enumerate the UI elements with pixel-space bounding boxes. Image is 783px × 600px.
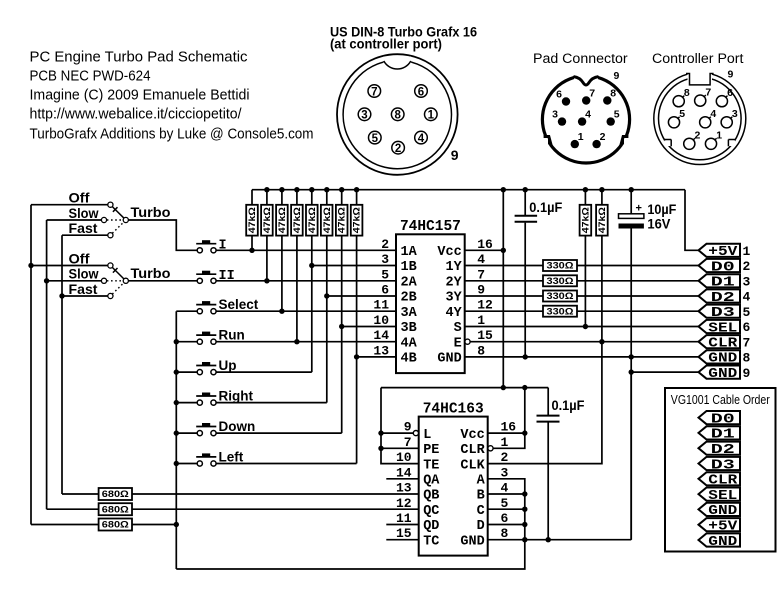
- connector flag D0 pin 2: [699, 259, 751, 275]
- wire SW2 Off feed: [31, 265, 108, 267]
- svg-text:4Y: 4Y: [445, 306, 462, 321]
- svg-text:3B: 3B: [401, 321, 417, 336]
- capacitor C2 10uF 16V electrolytic: [619, 190, 677, 540]
- svg-text:0.1µF: 0.1µF: [552, 398, 585, 413]
- svg-text:47kΩ: 47kΩ: [247, 207, 257, 233]
- svg-text:D0: D0: [711, 411, 735, 427]
- svg-text:0.1µF: 0.1µF: [529, 200, 562, 215]
- resistor R11 330 ohm: [543, 275, 577, 286]
- svg-text:2: 2: [600, 131, 606, 143]
- junction column8 to 4B: [354, 354, 359, 359]
- svg-text:S: S: [454, 321, 462, 336]
- svg-text:4: 4: [743, 290, 751, 305]
- Pad Connector pin 4: [578, 109, 591, 126]
- wire 47k A to S row: [584, 236, 586, 327]
- junction Slow bus / SW2: [44, 278, 49, 283]
- pushbutton Down: [196, 423, 216, 436]
- junction L pin: [378, 430, 383, 435]
- resistor 47k #7: [336, 190, 348, 236]
- wire U1 Vcc pin16: [465, 249, 504, 251]
- svg-text:9: 9: [743, 366, 751, 381]
- svg-text:PCB NEC PWD-624: PCB NEC PWD-624: [30, 69, 151, 85]
- wire SW1 Fast feed: [62, 234, 108, 236]
- svg-text:1Y: 1Y: [445, 260, 462, 275]
- svg-text:1: 1: [743, 244, 751, 259]
- svg-text:680Ω: 680Ω: [102, 505, 129, 515]
- svg-text:2B: 2B: [401, 291, 417, 306]
- wire SW1 output to button I: [128, 220, 197, 250]
- VG1001 flag GND: [699, 503, 741, 519]
- DIN-8 pin 8: [391, 108, 404, 122]
- junction on +5V rail: [294, 187, 299, 192]
- pushbutton I: [196, 240, 216, 253]
- junction PE pin: [378, 446, 383, 451]
- svg-text:47kΩ: 47kΩ: [292, 207, 302, 233]
- VG1001 flag D2: [699, 442, 741, 458]
- wire R16 680 row: [31, 524, 176, 526]
- svg-text:3Y: 3Y: [445, 291, 462, 306]
- wire GND flag pin9 row: [631, 371, 698, 373]
- wire Up to column5: [216, 371, 312, 373]
- Pad Connector pin 1: [571, 131, 584, 148]
- resistor R13 330 ohm: [543, 306, 577, 317]
- svg-text:47kΩ: 47kΩ: [597, 207, 607, 233]
- junction on +5V rail: [629, 187, 634, 192]
- wire R15 680 row: [47, 508, 419, 510]
- wire Run to 4A: [216, 341, 396, 343]
- svg-text:2Y: 2Y: [445, 276, 462, 291]
- svg-text:10µF: 10µF: [647, 202, 676, 217]
- VG1001 flag GND: [699, 533, 741, 549]
- svg-text:8: 8: [743, 351, 751, 366]
- svg-text:Vcc: Vcc: [460, 428, 484, 443]
- junction on +5V rail: [264, 187, 269, 192]
- wire U2 C: [488, 508, 525, 510]
- connector flag GND pin 9: [699, 366, 751, 382]
- svg-text:Slow: Slow: [69, 206, 99, 221]
- wire SW2 Slow feed: [47, 280, 102, 282]
- wire column 8: [356, 236, 358, 464]
- svg-text:2: 2: [501, 450, 509, 465]
- resistor 47k #4: [291, 190, 303, 236]
- pushbutton Left: [196, 453, 216, 466]
- svg-text:PC Engine Turbo Pad Schematic: PC Engine Turbo Pad Schematic: [30, 50, 248, 66]
- wire rail2 to U2 control pins: [381, 388, 419, 464]
- DIN-8 pin 6: [415, 85, 428, 99]
- svg-text:7: 7: [743, 335, 751, 350]
- svg-text:GND: GND: [708, 534, 737, 550]
- Controller Port pin 2: [684, 130, 701, 150]
- svg-text:CLR: CLR: [708, 473, 738, 489]
- VG1001 flag SEL: [699, 488, 741, 504]
- junction column7 to 3B: [339, 324, 344, 329]
- svg-text:16: 16: [501, 420, 517, 435]
- svg-text:47kΩ: 47kΩ: [337, 207, 347, 233]
- wire U2 L pin9: [381, 432, 413, 434]
- svg-text:74HC163: 74HC163: [423, 401, 484, 417]
- wire Left left feed: [176, 463, 197, 465]
- svg-text:TC: TC: [423, 534, 439, 549]
- svg-text:(at controller port): (at controller port): [330, 37, 442, 53]
- svg-text:47kΩ: 47kΩ: [322, 207, 332, 233]
- svg-text:Left: Left: [219, 450, 244, 465]
- junction Fast bus / SW2: [59, 293, 64, 298]
- VG1001 flag CLR: [699, 472, 741, 488]
- wire U2 QD stub: [386, 524, 418, 526]
- svg-text:4: 4: [585, 109, 591, 121]
- junction common vertical: [174, 369, 179, 374]
- svg-text:6: 6: [556, 89, 562, 101]
- svg-text:3: 3: [552, 109, 558, 121]
- wire SW2 Fast feed: [62, 295, 108, 297]
- wire Select left feed: [176, 310, 197, 312]
- connector J2 Pad Connector body: [540, 73, 632, 163]
- VG1001 flag D3: [699, 457, 741, 473]
- svg-text:D2: D2: [711, 442, 735, 458]
- svg-text:Imagine (C) 2009 Emanuele Bett: Imagine (C) 2009 Emanuele Bettidi: [30, 88, 250, 104]
- connector flag D3 pin 5: [699, 305, 751, 321]
- pushbutton Run: [196, 332, 216, 345]
- DIN-8 pin 2: [392, 141, 405, 155]
- svg-text:330Ω: 330Ω: [547, 306, 574, 316]
- wire U1 E to CLR flag: [470, 341, 698, 343]
- wire U2 PE pin7: [381, 447, 419, 449]
- connector flag SEL pin 6: [699, 320, 751, 336]
- svg-text:47kΩ: 47kΩ: [262, 207, 272, 233]
- svg-text:E: E: [454, 336, 462, 351]
- junction on +5V rail: [599, 187, 604, 192]
- svg-text:C: C: [477, 504, 485, 519]
- svg-text:Off: Off: [69, 191, 91, 206]
- svg-text:7: 7: [371, 86, 377, 98]
- svg-text:47kΩ: 47kΩ: [580, 207, 590, 233]
- Controller Port pin 1: [705, 130, 722, 150]
- wire SW1 Slow feed: [47, 219, 102, 221]
- Controller Port pin 8: [673, 87, 690, 107]
- wire U2 B: [488, 493, 525, 495]
- IC U2 74HC163: [396, 401, 516, 555]
- svg-text:2A: 2A: [401, 276, 418, 291]
- wire U1 GND to GND flag: [465, 356, 699, 358]
- wire SW2 output to button II: [128, 280, 197, 282]
- svg-text:Vcc: Vcc: [437, 245, 461, 260]
- Pad Connector pin 3: [552, 109, 566, 126]
- DIN-8 pin 3: [358, 108, 371, 122]
- svg-text:13: 13: [373, 343, 389, 358]
- svg-text:3: 3: [743, 275, 751, 290]
- svg-text:A: A: [477, 474, 486, 489]
- svg-text:GND: GND: [708, 351, 737, 367]
- svg-text:3: 3: [361, 110, 367, 122]
- svg-text:QB: QB: [423, 489, 439, 504]
- wire U2 D: [488, 524, 525, 526]
- resistor R15 680 ohm: [99, 503, 132, 515]
- resistor R_SEL 47k: [580, 190, 592, 236]
- wire U2 GND row: [488, 539, 632, 541]
- svg-text:B: B: [477, 489, 485, 504]
- junction on +5V rail: [523, 187, 528, 192]
- svg-text:Select: Select: [219, 297, 259, 312]
- svg-text:D3: D3: [711, 305, 735, 321]
- resistor R12 330 ohm: [543, 291, 577, 302]
- junction column5 to 1B: [309, 263, 314, 268]
- wire U2 Vcc pin16: [488, 432, 525, 434]
- wire button I to 1A: [216, 249, 396, 251]
- wire column 5: [311, 236, 313, 373]
- switch SW1 turbo select: [101, 202, 128, 238]
- svg-text:GND: GND: [708, 503, 737, 519]
- wire column 7: [341, 236, 343, 434]
- svg-text:8: 8: [684, 87, 690, 99]
- VG1001 flag D0: [699, 411, 741, 427]
- wire column 6: [326, 236, 328, 403]
- resistor 47k #1: [246, 190, 258, 236]
- svg-text:D0: D0: [711, 259, 735, 275]
- svg-text:330Ω: 330Ω: [547, 276, 574, 286]
- resistor R10 330 ohm: [543, 260, 577, 271]
- IC U1 pin E inverter bubble: [465, 339, 470, 344]
- junction common vertical: [174, 430, 179, 435]
- svg-text:5: 5: [381, 267, 389, 282]
- pushbutton Up: [196, 362, 216, 375]
- wire 4B input: [357, 356, 396, 358]
- wire buttons common vertical: [175, 311, 177, 569]
- pushbutton II: [196, 271, 216, 284]
- wire U2 QA stub: [386, 478, 418, 480]
- junction Off bus / SW2: [28, 263, 33, 268]
- wire column 2: [266, 236, 268, 281]
- svg-text:7: 7: [705, 86, 711, 98]
- svg-text:4B: 4B: [401, 352, 417, 367]
- resistor R16 680 ohm: [99, 519, 132, 531]
- svg-text:7: 7: [589, 88, 595, 100]
- svg-text:9: 9: [451, 147, 459, 163]
- svg-text:+: +: [636, 203, 642, 215]
- svg-text:2: 2: [743, 259, 751, 274]
- junction common vertical: [174, 461, 179, 466]
- svg-text:5: 5: [743, 305, 751, 320]
- IC U2 pin L inverter bubble: [413, 431, 418, 436]
- svg-text:SEL: SEL: [708, 488, 737, 504]
- VG1001 flag D1: [699, 426, 741, 442]
- wire +5V rail2: [381, 387, 548, 389]
- svg-text:D: D: [477, 519, 485, 534]
- svg-text:3: 3: [381, 252, 389, 267]
- connector J1 US DIN-8 body: [337, 54, 458, 175]
- svg-text:680Ω: 680Ω: [102, 489, 129, 499]
- svg-text:TurboGrafx Additions by Luke @: TurboGrafx Additions by Luke @ Console5.…: [30, 127, 314, 143]
- Pad Connector pin 7: [582, 88, 595, 105]
- svg-text:6: 6: [727, 87, 733, 99]
- wire Down left feed: [176, 432, 197, 434]
- junction common vertical / 680R QD row: [174, 522, 179, 527]
- wire column 1: [251, 236, 253, 251]
- svg-text:+5V: +5V: [708, 519, 738, 535]
- Pad Connector pin 5: [607, 109, 620, 126]
- svg-text:4A: 4A: [401, 336, 418, 351]
- svg-text:GND: GND: [708, 366, 737, 382]
- svg-text:+5V: +5V: [708, 244, 738, 260]
- wire U1 S to SEL flag: [465, 326, 699, 328]
- junction common vertical: [174, 400, 179, 405]
- VG1001 flag +5V: [699, 518, 741, 534]
- wire U1 1Y to D0 flag: [465, 265, 699, 267]
- wire 2B input: [327, 295, 396, 297]
- svg-text:QA: QA: [423, 474, 440, 489]
- svg-text:Run: Run: [219, 328, 245, 343]
- pushbutton Select: [196, 301, 216, 314]
- IC U1 74HC157: [373, 219, 493, 373]
- svg-text:Controller Port: Controller Port: [652, 51, 744, 67]
- svg-text:D3: D3: [711, 457, 735, 473]
- svg-text:1: 1: [428, 110, 435, 122]
- svg-text:330Ω: 330Ω: [547, 261, 574, 271]
- svg-text:6: 6: [418, 86, 424, 98]
- Controller Port pin 5: [668, 108, 685, 128]
- svg-text:GND: GND: [460, 534, 484, 549]
- svg-text:9: 9: [728, 69, 734, 81]
- resistor 47k #3: [276, 190, 288, 236]
- junction on +5V rail: [279, 187, 284, 192]
- svg-text:PE: PE: [423, 443, 439, 458]
- junction on +5V rail: [501, 187, 506, 192]
- capacitor C3 0.1uF (74HC163): [537, 388, 585, 540]
- svg-text:SEL: SEL: [708, 320, 737, 336]
- svg-text:3: 3: [732, 108, 738, 120]
- DIN-8 pin 1: [425, 108, 438, 122]
- IC U2 pin CLR inverter bubble: [488, 446, 493, 451]
- junction on +5V rail: [583, 187, 588, 192]
- wire 47k B to E row and CLK: [488, 236, 602, 464]
- svg-text:Slow: Slow: [69, 267, 99, 282]
- svg-text:QC: QC: [423, 504, 439, 519]
- svg-text:Fast: Fast: [69, 221, 99, 236]
- svg-text:2: 2: [695, 130, 701, 142]
- svg-text:CLR: CLR: [708, 336, 738, 352]
- svg-text:5: 5: [372, 133, 379, 145]
- wire Run left feed: [176, 341, 197, 343]
- svg-text:2: 2: [395, 143, 401, 155]
- svg-text:L: L: [423, 428, 431, 443]
- svg-text:13: 13: [396, 481, 412, 496]
- wire 1B input: [312, 265, 396, 267]
- svg-text:74HC157: 74HC157: [400, 219, 461, 235]
- Pad Connector pin 2: [592, 131, 605, 148]
- wire Select to 3A: [216, 310, 396, 312]
- Controller Port pin 6: [716, 87, 733, 107]
- resistor R14 680 ohm: [99, 488, 132, 500]
- wire Right left feed: [176, 402, 197, 404]
- svg-text:1A: 1A: [401, 245, 418, 260]
- svg-text:6: 6: [743, 320, 751, 335]
- wire Right to column6: [216, 402, 327, 404]
- svg-text:9: 9: [614, 70, 620, 82]
- svg-text:8: 8: [610, 88, 616, 100]
- svg-text:Fast: Fast: [69, 282, 99, 297]
- junction on +5V rail: [354, 187, 359, 192]
- svg-text:330Ω: 330Ω: [547, 291, 574, 301]
- svg-text:CLK: CLK: [460, 458, 485, 473]
- svg-text:5: 5: [614, 109, 620, 121]
- wire button II to 2A: [216, 280, 396, 282]
- connector flag +5V pin 1: [699, 244, 751, 260]
- wire Fast bus vertical: [61, 235, 63, 494]
- svg-text:10: 10: [373, 313, 389, 328]
- svg-text:Turbo: Turbo: [131, 266, 171, 281]
- svg-text:D1: D1: [711, 275, 735, 291]
- pushbutton Right: [196, 393, 216, 406]
- wire R14 680 row: [62, 493, 419, 495]
- wire Slow bus vertical: [46, 220, 48, 509]
- resistor 47k #8: [351, 190, 363, 236]
- wire U2 ABCD tie to ground: [176, 479, 525, 569]
- resistor 47k #5: [306, 190, 318, 236]
- Controller Port pin 3: [721, 108, 738, 128]
- svg-text:9: 9: [404, 420, 412, 435]
- Controller Port pin 4: [700, 108, 717, 128]
- connector flag D1 pin 3: [699, 274, 751, 290]
- wire 3B input: [342, 326, 396, 328]
- junction C3 to GND row: [546, 537, 551, 542]
- wire Down to column7: [216, 432, 342, 434]
- svg-text:16V: 16V: [647, 217, 670, 232]
- resistor 47k #6: [321, 190, 333, 236]
- connector flag CLR pin 7: [699, 335, 751, 351]
- connector flag D2 pin 4: [699, 289, 751, 305]
- resistor R_CLR 47k: [596, 190, 608, 236]
- wire +5V drop to U1 Vcc: [502, 190, 504, 388]
- wire column 3: [281, 236, 283, 312]
- wire U1 2Y to D1 flag: [465, 280, 699, 282]
- wire U2 TC stub: [386, 539, 418, 541]
- svg-text:TE: TE: [423, 458, 439, 473]
- svg-text:47kΩ: 47kΩ: [307, 207, 317, 233]
- svg-text:1: 1: [501, 435, 509, 450]
- connector flag GND pin 8: [699, 350, 751, 366]
- DIN-8 pin 7: [368, 85, 381, 99]
- svg-text:8: 8: [394, 110, 401, 122]
- svg-text:http://www.webalice.it/cicciop: http://www.webalice.it/cicciopetito/: [30, 107, 243, 123]
- svg-text:47kΩ: 47kΩ: [352, 207, 362, 233]
- svg-text:12: 12: [396, 496, 412, 511]
- svg-text:11: 11: [373, 298, 389, 313]
- connector J3 Controller Port body: [654, 72, 746, 165]
- svg-text:5: 5: [679, 108, 685, 120]
- wire Left to column8: [216, 463, 356, 465]
- svg-text:Pad Connector: Pad Connector: [533, 51, 628, 67]
- svg-text:CLR: CLR: [460, 443, 485, 458]
- junction common vertical: [174, 339, 179, 344]
- svg-text:D2: D2: [711, 290, 735, 306]
- svg-text:47kΩ: 47kΩ: [277, 207, 287, 233]
- VG1001 Cable Order box: [665, 388, 776, 552]
- svg-text:Down: Down: [219, 419, 256, 434]
- Pad Connector pin 6: [556, 89, 570, 106]
- svg-text:2: 2: [381, 237, 389, 252]
- svg-text:14: 14: [373, 328, 389, 343]
- wire SW1 Off feed: [31, 204, 108, 206]
- switch SW2 turbo select: [101, 263, 128, 299]
- wire +5V top rail: [252, 189, 685, 191]
- svg-text:Right: Right: [219, 389, 254, 404]
- svg-text:D1: D1: [711, 427, 735, 443]
- svg-text:10: 10: [396, 450, 412, 465]
- svg-text:GND: GND: [437, 352, 461, 367]
- DIN-8 pin 5: [369, 131, 382, 145]
- junction on +5V rail: [324, 187, 329, 192]
- svg-text:4: 4: [418, 133, 425, 145]
- junction on +5V rail: [339, 187, 344, 192]
